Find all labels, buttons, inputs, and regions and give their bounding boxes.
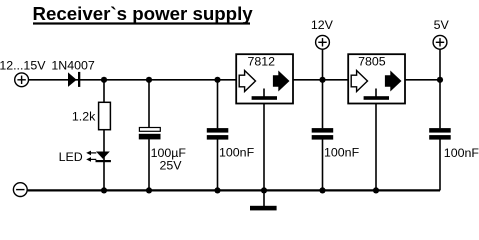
wire: 12V node down through C3 upper	[322, 49, 324, 128]
wire: C4 branch lower	[439, 140, 441, 191]
junction node: diode-resistor	[101, 77, 107, 83]
wire: 7805 output to 5V node	[405, 79, 440, 81]
svg-text:12V: 12V	[311, 18, 334, 32]
regulator U1 7812	[236, 54, 293, 103]
wire: C1 branch upper	[148, 80, 150, 128]
junction node: C2 top	[214, 77, 220, 83]
svg-text:LED: LED	[59, 150, 83, 164]
wire: bottom ground rail	[28, 189, 440, 191]
LED D2	[86, 151, 111, 163]
resistor R1 1.2k	[99, 102, 111, 129]
svg-text:1.2k: 1.2k	[72, 110, 96, 124]
terminal: 12V output	[316, 35, 330, 49]
junction node: 5V	[437, 77, 443, 83]
svg-text:100nF: 100nF	[324, 146, 360, 160]
svg-text:7805: 7805	[358, 55, 386, 69]
junction node: 12V	[319, 77, 325, 83]
junction node: 7805 ground	[373, 187, 379, 193]
junction node: C1 bottom	[146, 187, 152, 193]
svg-text:Receiver`s power supply: Receiver`s power supply	[33, 3, 254, 24]
svg-text:12...15V: 12...15V	[0, 59, 46, 73]
svg-text:100nF: 100nF	[444, 146, 479, 160]
wire: C1 branch lower	[148, 139, 150, 190]
wire: resistor/LED branch	[103, 80, 105, 191]
svg-text:25V: 25V	[160, 159, 183, 173]
svg-text:5V: 5V	[434, 18, 450, 32]
label: 100uF 25V	[151, 146, 187, 173]
terminal: - input	[13, 183, 27, 197]
capacitor C4 100nF	[429, 128, 451, 140]
wire: C2 branch upper	[217, 80, 219, 129]
wire: 5V node down through C4 upper	[439, 49, 441, 128]
wire: 7812 ground pin to ground symbol	[263, 104, 265, 206]
diode D1 1N4007	[68, 72, 80, 87]
wire: 7805 ground pin	[375, 104, 377, 191]
svg-text:100nF: 100nF	[219, 146, 255, 160]
junction node: LED bottom	[101, 187, 107, 193]
wire: 7812 output to 7805 input	[293, 79, 348, 81]
wire: top rail from +terminal to 7812 input	[29, 79, 236, 81]
capacitor C2 100nF	[207, 128, 229, 140]
wire: C2 branch lower	[217, 140, 219, 191]
capacitor C1 100uF electrolytic	[139, 128, 161, 140]
regulator U2 7805	[348, 54, 405, 103]
svg-text:7812: 7812	[248, 55, 276, 69]
title: Receiver`s power supply	[33, 3, 254, 25]
junction node: C3 bottom	[319, 187, 325, 193]
junction node: C2 bottom	[214, 187, 220, 193]
ground symbol	[250, 206, 277, 211]
svg-text:1N4007: 1N4007	[51, 59, 95, 73]
capacitor C3 100nF	[312, 128, 334, 140]
terminal: 5V output	[433, 35, 447, 49]
terminal: + input 12...15V	[15, 73, 29, 87]
wire: C3 branch lower	[322, 140, 324, 191]
junction node: C1 top	[146, 77, 152, 83]
junction node: ground	[261, 187, 267, 193]
